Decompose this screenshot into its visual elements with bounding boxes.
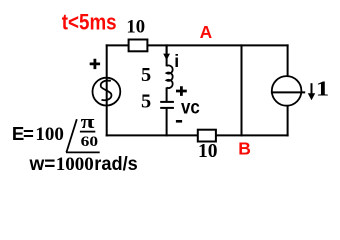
- source current arrow shaft: [311, 83, 313, 95]
- wire top horizontal: [106, 44, 289, 46]
- svg-text:1: 1: [316, 78, 330, 100]
- svg-text:π: π: [81, 111, 95, 132]
- svg-text:10: 10: [126, 16, 145, 37]
- source current arrow head: [308, 93, 315, 100]
- wire current-source branch upper: [287, 44, 289, 76]
- wire middle branch upper: [166, 44, 168, 66]
- svg-text:t<5ms: t<5ms: [62, 10, 117, 35]
- svg-text:5: 5: [141, 91, 151, 113]
- svg-text:60: 60: [81, 132, 98, 150]
- wire left vertical: [106, 44, 108, 136]
- fraction bar pi/60: [80, 131, 95, 133]
- voltage source sine squiggle: [101, 81, 112, 101]
- capacitor C bottom plate: [160, 107, 174, 109]
- svg-text:=: =: [23, 123, 34, 144]
- svg-text:w=: w=: [29, 154, 56, 175]
- current arrow i shaft: [166, 45, 168, 56]
- svg-text:1000: 1000: [56, 154, 94, 175]
- minus sign at capacitor: [176, 120, 182, 123]
- plus sign at voltage source: [90, 59, 100, 69]
- wire bottom horizontal: [106, 134, 289, 136]
- capacitor C top plate: [160, 101, 174, 103]
- svg-text:10: 10: [198, 141, 218, 162]
- inductor L 5 coil: [167, 65, 173, 88]
- current arrow i head: [163, 54, 170, 61]
- current source horizontal bar: [271, 91, 305, 93]
- svg-text:100: 100: [35, 124, 64, 145]
- resistor R top 10: [129, 40, 148, 52]
- angle symbol base line: [66, 151, 100, 153]
- svg-text:B: B: [238, 138, 251, 158]
- wire right vertical: [241, 44, 243, 136]
- current source I1 circle: [272, 76, 302, 106]
- svg-text:rad/s: rad/s: [94, 154, 138, 175]
- wire current-source branch lower: [287, 106, 289, 137]
- resistor R bottom 10: [198, 130, 216, 142]
- wire middle branch between coil and capacitor: [166, 87, 168, 102]
- voltage source E circle: [93, 78, 121, 106]
- svg-text:5: 5: [141, 64, 151, 86]
- wire middle branch lower: [166, 108, 168, 136]
- angle symbol diagonal: [66, 119, 76, 152]
- svg-text:A: A: [200, 22, 213, 42]
- plus sign at capacitor: [176, 86, 187, 96]
- svg-text:vc: vc: [181, 96, 200, 118]
- svg-text:i: i: [174, 51, 179, 71]
